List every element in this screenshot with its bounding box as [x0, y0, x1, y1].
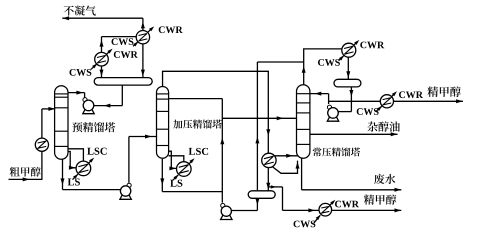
arrow reflux into T3: [315, 92, 322, 96]
arrow up on T3 vapor: [302, 66, 306, 73]
arrow into reboiler R1: [69, 166, 76, 170]
label CWR of E6: [399, 91, 423, 98]
stub LSC out of R2: [189, 158, 195, 164]
reflux pump P3: [327, 105, 338, 121]
stub CWR out of E6: [392, 91, 397, 96]
reflux drum D1: [94, 78, 152, 86]
label 杂醇油: [367, 121, 399, 131]
label CWS of E7: [293, 221, 315, 228]
arrow on branch: [271, 185, 277, 188]
wire E5 to drum D3: [347, 57, 349, 79]
arrow down into D1: [100, 70, 104, 77]
feed riser wire: [42, 109, 55, 180]
wire D1 to P1 suction: [94, 85, 122, 105]
label CWR of E1: [159, 26, 183, 33]
arrow product right: [456, 99, 463, 103]
column T3 常压精馏塔 (atmospheric rectifier): [297, 85, 310, 159]
stub LS into R1: [73, 174, 79, 180]
vent arrow left: [62, 16, 69, 20]
product line to E6: [329, 100, 463, 102]
reflux drum D2: [248, 191, 275, 199]
wire T1 top to pump P1: [68, 93, 85, 99]
stub CWS into E7: [314, 215, 321, 223]
arrow up on D2 vent: [255, 137, 259, 144]
interchanger E4: [262, 153, 276, 167]
arrow waste water: [395, 188, 402, 192]
stub CWR out of E5: [354, 40, 360, 45]
arrow up on P4 riser: [220, 138, 224, 145]
crude methanol feed line 粗甲醇: [9, 178, 42, 180]
label 预精馏塔: [72, 122, 115, 132]
column T1 预精馏塔 (pre-rectifier): [55, 86, 68, 160]
vent line 不凝气: [62, 17, 143, 19]
wire E2 down to drum D1: [101, 66, 103, 78]
stub CWR out of E2: [106, 49, 112, 55]
wire E2 to top corner: [101, 37, 103, 53]
product cooler E7: [319, 203, 332, 216]
feed preheater E0: [35, 138, 48, 151]
fusel oil line 杂醇油: [310, 133, 398, 135]
wire T2 bottoms to reboiler: [169, 151, 176, 168]
label CWR of E2: [114, 51, 138, 58]
arrow into T3 side: [286, 154, 293, 158]
feed arrow right: [23, 177, 30, 181]
wire D2 outlet to P4: [232, 199, 258, 211]
reboiler R2: [177, 162, 192, 177]
label CWS of E5: [318, 59, 340, 66]
stub LS into R2: [173, 175, 179, 181]
arrow down on D2 outlet: [255, 198, 259, 205]
label CWR of E5: [360, 42, 384, 49]
wire P4 discharge riser: [169, 99, 223, 203]
arrow fusel oil: [391, 132, 398, 136]
wire T2 overhead vapor: [163, 71, 269, 153]
product cooler E6: [380, 95, 393, 108]
arrow down on T1 outlet: [61, 178, 65, 185]
label CWS of E6: [357, 108, 379, 115]
wire D2 vent riser: [257, 62, 303, 191]
wire E1 top riser: [142, 18, 144, 31]
stub CWS into E6: [377, 106, 382, 111]
label 废水: [374, 174, 395, 184]
arrow into reboiler R2: [169, 166, 176, 170]
wire T1 bottoms to reboiler: [68, 152, 76, 168]
stub CWR out of E7: [330, 200, 336, 205]
feed arrow into T1: [48, 107, 55, 111]
bottom product line: [268, 187, 401, 211]
feed pump P2: [120, 183, 131, 199]
wire E1 down to drum D1: [142, 44, 144, 78]
wire E4 liquid loop: [272, 161, 297, 174]
reflux drum D3: [334, 79, 361, 87]
arrow before E7: [308, 208, 315, 212]
wire R2 vapor return to T2: [169, 156, 184, 162]
arrow down on T2 outlet: [160, 178, 164, 185]
label 粗甲醇: [10, 167, 41, 177]
stub CWR out of E1: [148, 26, 155, 32]
label LS of R2: [170, 180, 182, 187]
wire E4 vapor to T3: [274, 155, 298, 157]
arrow into T3 feed: [277, 116, 284, 120]
wire T2 bottom outlet: [162, 159, 222, 192]
label CWS of E2: [69, 69, 91, 76]
arrow up to vent line: [141, 22, 145, 29]
reflux pump P1: [83, 98, 94, 114]
label CWR of E7: [335, 201, 359, 208]
wire T3 overhead vapor: [304, 49, 342, 85]
label CWS of E1: [111, 38, 133, 45]
label 不凝气: [64, 5, 96, 15]
arrow left into P1: [104, 104, 111, 108]
stub LSC out of R1: [88, 158, 94, 164]
column T2 加压精馏塔 (pressurized rectifier): [157, 86, 169, 158]
reboiler R1: [76, 161, 91, 176]
arrow down into E4: [266, 129, 270, 136]
stub CWS into E5: [339, 55, 344, 60]
arrow down into D1 right: [141, 70, 145, 77]
wire T3 feed branch: [222, 117, 297, 119]
wire E4 condensate to drum D2: [267, 168, 269, 191]
arrow into T2 feed: [145, 135, 152, 139]
condenser E1: [136, 31, 149, 44]
wire T1 bottom outlet: [63, 159, 121, 189]
label LS of R1: [68, 178, 80, 185]
label 加压精馏塔: [173, 119, 222, 128]
label LSC of R1: [87, 148, 106, 155]
label LSC of R2: [189, 148, 208, 155]
wire P2 discharge to T2: [129, 137, 157, 183]
condenser E2: [95, 52, 109, 66]
wire R1 vapor return to T1: [68, 149, 83, 161]
arrow up above E2: [100, 40, 104, 47]
arrow down on D3 outlet: [349, 90, 353, 97]
label 精甲醇 top: [427, 86, 460, 97]
label 精甲醇 bottom: [364, 194, 397, 204]
arrow down into D3: [346, 71, 350, 78]
wire T1 vapor loop top: [102, 36, 137, 38]
reflux pump P4: [221, 203, 232, 219]
label 常压精馏塔: [313, 147, 360, 156]
stub CWS into E1: [133, 42, 138, 47]
wire D3 outlet: [338, 87, 351, 112]
condenser E5: [342, 43, 356, 57]
arrow up into T3 cap: [296, 162, 300, 169]
wire P3 discharge riser: [310, 94, 329, 104]
arrow down into D2: [266, 183, 270, 190]
arrow right on reflux wire: [76, 91, 83, 95]
waste water line 废水: [302, 158, 402, 190]
arrow bottom product: [395, 208, 402, 212]
stub CWS into E2: [91, 64, 97, 70]
